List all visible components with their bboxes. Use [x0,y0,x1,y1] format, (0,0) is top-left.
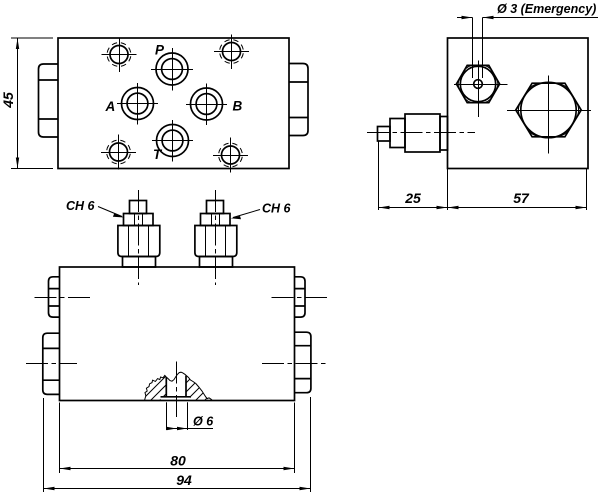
hole seat line [161,396,192,398]
svg-text:80: 80 [170,453,186,469]
port P [151,48,193,91]
coil / cartridge fitting (stepped profile) [378,114,448,152]
dimension Ø3 (emergency hole) [457,16,598,78]
adjustment screw right [195,201,237,268]
port T [152,120,193,162]
side plug upper-right (front view) [295,277,306,317]
CH 6 leader right [231,210,261,220]
Ø6 hole bore walls [166,376,186,397]
svg-text:Ø 6: Ø 6 [193,415,214,429]
centerline lower plugs left [26,363,77,365]
svg-text:CH 6: CH 6 [66,199,96,213]
valve body outline (side view) [448,38,589,169]
bolt hole bottom-right [213,138,248,173]
svg-text:CH 6: CH 6 [262,202,292,216]
bolt hole bottom-left [101,135,136,170]
centerline upper plugs left [35,297,91,299]
valve body outline (front view) [60,267,295,401]
valve body outline (top view) [58,38,289,169]
bolt hole top-right [214,35,249,70]
port A [117,83,158,125]
hatching left [131,376,193,411]
dimension 25 [379,141,448,210]
side plug upper-left (front view) [49,277,60,317]
centerline lower plugs right [262,363,329,365]
port B [186,84,227,126]
svg-text:T: T [153,147,163,162]
adjustment screw right centerline [215,190,217,285]
large hex plug [507,76,591,154]
dimension 57 [448,169,587,211]
CH 6 leader left [98,207,125,218]
svg-text:94: 94 [176,472,192,488]
svg-text:B: B [233,99,243,114]
svg-text:45: 45 [0,92,16,109]
dimension Ø6 [167,402,214,430]
svg-text:Ø 3 (Emergency): Ø 3 (Emergency) [497,2,596,16]
svg-text:A: A [105,99,116,114]
centerline upper plugs right [272,297,329,299]
hatching right [158,376,247,411]
hole centerline [176,362,178,421]
adjustment screw left centerline [138,190,140,285]
side plug lower-left (front view) [43,333,60,394]
dimension 80 [60,403,295,474]
svg-text:25: 25 [404,190,421,206]
fitting centerline [367,132,475,134]
svg-text:57: 57 [513,190,530,206]
dimension 45 (height of top view) [11,38,53,169]
adjustment screw left [118,201,160,268]
small hex plug (emergency) [454,61,508,118]
side plug right (top view, hex side profile) [289,64,308,136]
side plug left (top view, hex side profile) [39,64,59,137]
dimension 94 [44,397,311,492]
side plug lower-right (front view) [295,332,311,393]
svg-text:P: P [155,43,165,58]
bolt hole top-left [102,38,137,73]
